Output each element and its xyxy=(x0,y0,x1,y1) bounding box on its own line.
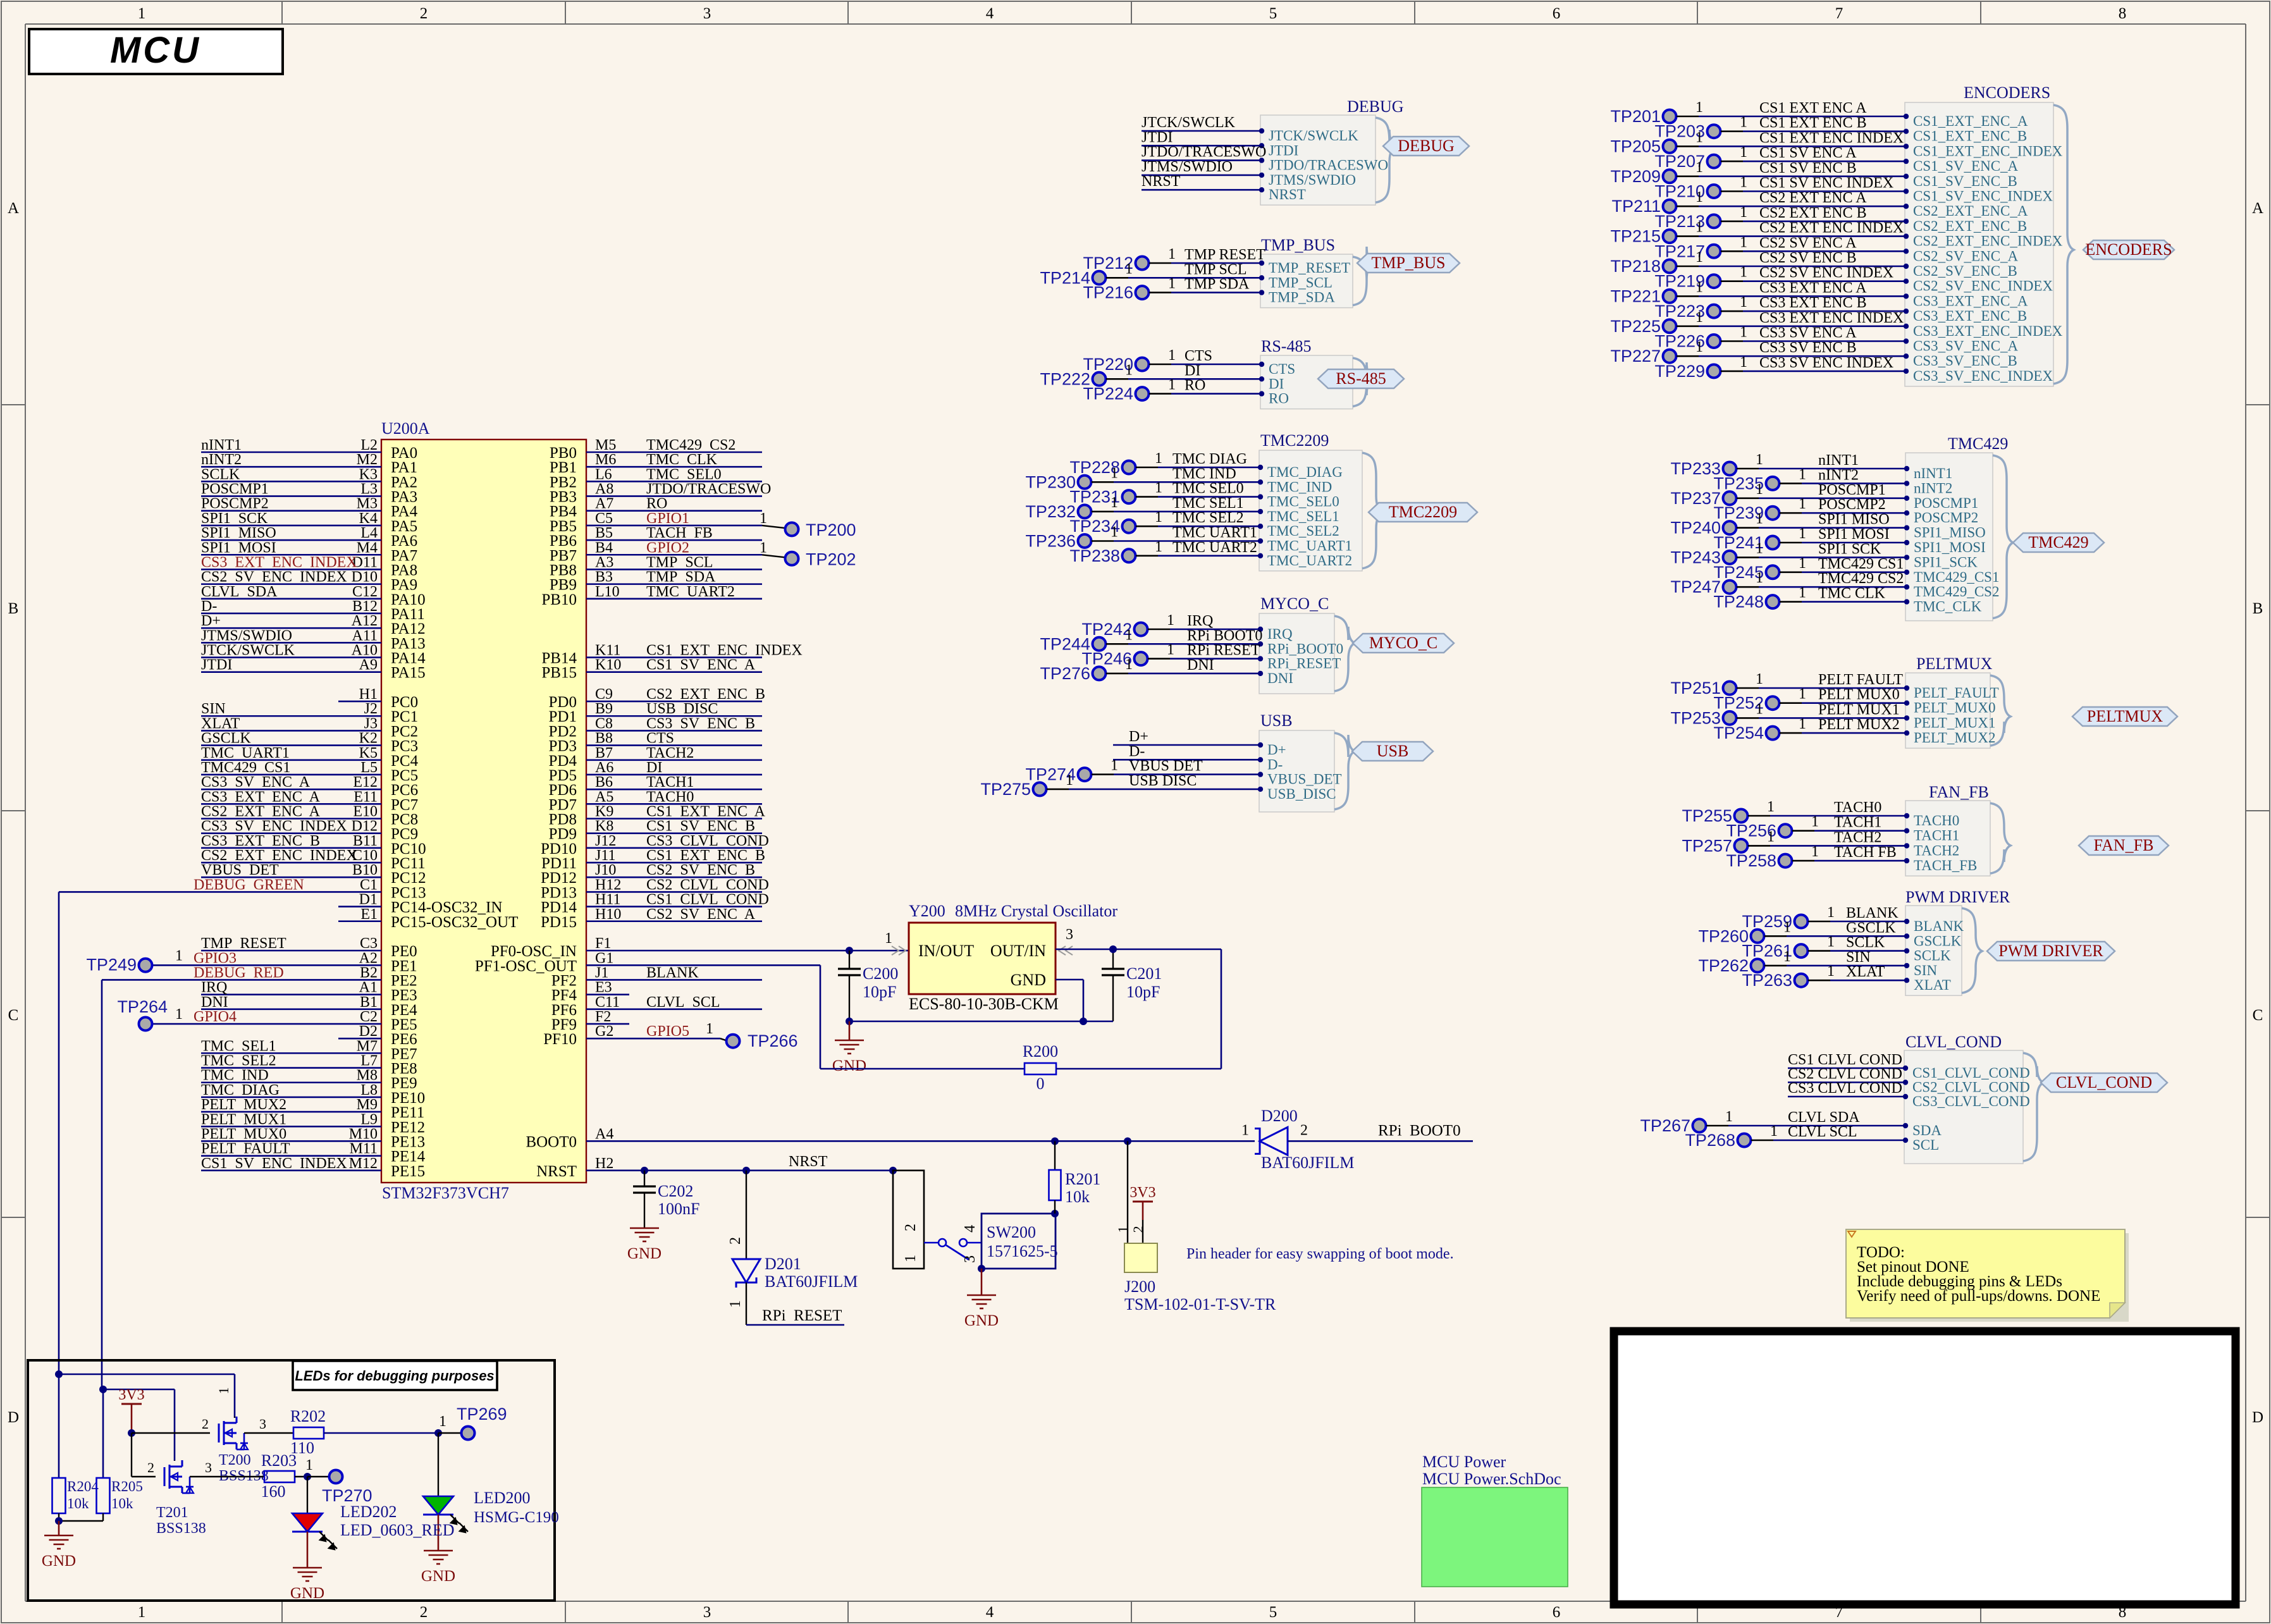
test point TP243 xyxy=(1670,540,1905,567)
svg-text:TMP_BUS: TMP_BUS xyxy=(1371,254,1445,272)
harness title PWM DRIVER xyxy=(1905,888,2010,906)
svg-text:DNI: DNI xyxy=(1267,670,1293,686)
svg-text:TMC_DIAG: TMC_DIAG xyxy=(1267,464,1343,480)
svg-text:1: 1 xyxy=(1125,627,1133,643)
svg-text:OUT/IN: OUT/IN xyxy=(990,942,1046,960)
harness port ENCODERS xyxy=(2083,240,2174,259)
svg-text:D201: D201 xyxy=(765,1255,801,1273)
svg-text:CS2_SV_ENC_B: CS2_SV_ENC_B xyxy=(1913,263,2017,279)
harness entry NRST xyxy=(1259,187,1306,202)
svg-text:1: 1 xyxy=(760,510,767,527)
svg-text:1: 1 xyxy=(1740,234,1747,250)
svg-text:CS2_SV_ENC_INDEX: CS2_SV_ENC_INDEX xyxy=(1913,278,2053,294)
svg-text:LED_0603_RED: LED_0603_RED xyxy=(340,1521,455,1539)
svg-text:GPIO2: GPIO2 xyxy=(646,539,689,556)
svg-text:J10: J10 xyxy=(595,862,616,878)
harness title DEBUG xyxy=(1347,97,1404,116)
svg-text:1: 1 xyxy=(1756,570,1763,586)
MCU pin M3 (PA4) xyxy=(201,496,418,520)
svg-text:1: 1 xyxy=(1111,524,1118,541)
MCU pin D11 (PA8) xyxy=(201,554,417,579)
harness entry PELT_MUX2 xyxy=(1904,730,1996,746)
svg-text:C: C xyxy=(8,1007,19,1024)
svg-text:K5: K5 xyxy=(359,745,378,761)
svg-text:RO: RO xyxy=(1269,391,1289,407)
test point TP230 xyxy=(1025,465,1259,491)
net label PELT MUX2 xyxy=(1818,717,1900,733)
sheet title box MCU xyxy=(29,29,283,74)
MCU pin H11 (PD14) xyxy=(541,892,769,916)
harness entry SDA xyxy=(1903,1123,1942,1138)
test point TP202 xyxy=(760,539,856,569)
svg-text:JTCK/SWCLK: JTCK/SWCLK xyxy=(1142,114,1236,131)
svg-text:PELT_MUX2: PELT_MUX2 xyxy=(1914,730,1996,746)
svg-text:USB: USB xyxy=(1377,742,1409,760)
harness port TMC2209 xyxy=(1369,503,1477,522)
svg-text:1: 1 xyxy=(1167,612,1174,629)
net label RPi RESET xyxy=(1187,643,1260,659)
wire CS3_CLVL_COND xyxy=(1788,1096,1904,1098)
svg-text:SPI1 MOSI: SPI1 MOSI xyxy=(1818,526,1890,543)
wire crystal OUT/IN to C201 and R200 xyxy=(1055,945,1221,1069)
svg-text:LEDs for debugging purposes: LEDs for debugging purposes xyxy=(295,1368,494,1384)
svg-text:1: 1 xyxy=(1696,309,1703,326)
net label SPI1 MOSI xyxy=(1818,526,1890,543)
test point TP269 xyxy=(434,1405,507,1440)
svg-text:nINT1: nINT1 xyxy=(201,437,242,453)
MCU pin A4 (BOOT0) wire xyxy=(526,1126,1255,1150)
svg-text:PB15: PB15 xyxy=(541,665,577,682)
svg-text:M2: M2 xyxy=(357,452,378,468)
svg-text:TMP SDA: TMP SDA xyxy=(646,569,716,586)
MCU pin M12 (PE15) xyxy=(201,1155,425,1180)
harness entry TMP_RESET xyxy=(1259,260,1350,276)
svg-text:1: 1 xyxy=(1740,294,1747,311)
net label TACH FB xyxy=(1834,844,1897,861)
svg-text:D12: D12 xyxy=(352,818,378,835)
harness entry RPi_BOOT0 xyxy=(1258,641,1343,656)
svg-text:PELT FAULT: PELT FAULT xyxy=(201,1141,290,1157)
svg-text:PELT_MUX1: PELT_MUX1 xyxy=(1914,715,1996,730)
svg-text:D+: D+ xyxy=(201,613,221,629)
svg-text:E1: E1 xyxy=(360,906,378,923)
svg-text:TMC429_CS1: TMC429_CS1 xyxy=(1914,569,1999,585)
svg-text:A2: A2 xyxy=(359,950,378,966)
svg-text:BAT60JFILM: BAT60JFILM xyxy=(765,1272,858,1291)
svg-text:1: 1 xyxy=(1125,362,1133,378)
svg-text:M12: M12 xyxy=(349,1155,378,1172)
test point TP242 xyxy=(1081,612,1259,639)
note pin header boot mode xyxy=(1186,1246,1454,1262)
svg-text:CS2 EXT ENC INDEX: CS2 EXT ENC INDEX xyxy=(1759,220,1904,237)
harness entry SPI1_SCK xyxy=(1904,554,1978,570)
svg-text:L5: L5 xyxy=(360,760,378,776)
svg-text:CS2_SV_ENC_A: CS2_SV_ENC_A xyxy=(1913,248,2019,264)
svg-text:TP268: TP268 xyxy=(1685,1131,1735,1150)
net label PELT MUX1 xyxy=(1818,701,1900,718)
harness entry SCLK xyxy=(1904,948,1951,964)
svg-text:TMP RESET: TMP RESET xyxy=(201,935,286,952)
svg-text:TACH0: TACH0 xyxy=(1914,813,1959,828)
svg-text:TMC429_CS2: TMC429_CS2 xyxy=(1914,584,1999,600)
svg-text:CS3 SV ENC B: CS3 SV ENC B xyxy=(1759,340,1857,356)
svg-text:CS2 EXT ENC B: CS2 EXT ENC B xyxy=(646,686,765,703)
harness connector PWM DRIVER xyxy=(1905,906,1962,995)
svg-text:CS1_EXT_ENC_INDEX: CS1_EXT_ENC_INDEX xyxy=(1913,143,2063,159)
harness brace RS-485 xyxy=(1353,358,1373,407)
MCU pin J2 (PC1) xyxy=(201,701,418,725)
harness entry PELT_MUX0 xyxy=(1904,700,1996,716)
svg-text:IRQ: IRQ xyxy=(201,980,227,996)
svg-text:CLVL_COND: CLVL_COND xyxy=(2056,1073,2152,1092)
svg-text:POSCMP1: POSCMP1 xyxy=(1818,482,1886,498)
svg-text:3: 3 xyxy=(703,5,711,22)
MCU pin D12 (PC9) xyxy=(201,818,418,843)
test point TP218 xyxy=(1610,249,1905,276)
svg-text:1: 1 xyxy=(1696,189,1703,206)
svg-text:1: 1 xyxy=(1799,555,1806,572)
test point TP229 xyxy=(1654,354,1905,381)
svg-text:SPI1_MOSI: SPI1_MOSI xyxy=(1914,539,1986,555)
harness entry CS3_SV_ENC_A xyxy=(1904,338,2019,354)
svg-text:L10: L10 xyxy=(595,584,620,600)
MCU pin M6 (PB1) xyxy=(550,452,762,476)
net label USB DISC xyxy=(1129,773,1197,789)
svg-text:B3: B3 xyxy=(595,569,613,586)
MCU U200A STM32F373VCH7 part body xyxy=(381,419,586,1202)
net label IRQ xyxy=(1187,613,1213,629)
harness brace DEBUG xyxy=(1376,118,1396,202)
svg-text:1: 1 xyxy=(1767,799,1775,815)
svg-text:A3: A3 xyxy=(595,554,613,570)
svg-text:DEBUG: DEBUG xyxy=(1347,97,1404,116)
harness entry CS3_SV_ENC_INDEX xyxy=(1904,368,2053,384)
test point TP238 xyxy=(1069,539,1259,565)
test point TP233 xyxy=(1670,452,1905,478)
svg-text:M4: M4 xyxy=(357,539,378,556)
svg-text:C200: C200 xyxy=(863,964,898,983)
MCU pin F1 (PF0-OSC_IN) wire to crystal xyxy=(491,935,909,960)
net label POSCMP2 xyxy=(1818,496,1886,513)
svg-text:TP201: TP201 xyxy=(1610,107,1661,126)
svg-text:K2: K2 xyxy=(359,730,378,747)
svg-text:TP232: TP232 xyxy=(1025,502,1076,521)
harness entry CTS xyxy=(1259,361,1295,377)
svg-text:DEBUG GREEN: DEBUG GREEN xyxy=(194,877,304,893)
svg-text:F1: F1 xyxy=(595,935,611,952)
svg-text:CS3 EXT ENC A: CS3 EXT ENC A xyxy=(201,789,321,805)
svg-text:CS2 EXT ENC A: CS2 EXT ENC A xyxy=(1759,190,1867,206)
harness port RS-485 xyxy=(1318,369,1404,388)
svg-text:TP236: TP236 xyxy=(1025,532,1076,551)
test point TP219 xyxy=(1654,264,1905,291)
test point TP222 xyxy=(1040,362,1260,388)
svg-text:1: 1 xyxy=(1111,465,1118,481)
svg-text:TMC429 CS1: TMC429 CS1 xyxy=(201,760,290,776)
svg-text:B2: B2 xyxy=(360,964,378,981)
harness entry D- xyxy=(1258,756,1283,772)
svg-text:J3: J3 xyxy=(364,715,378,732)
svg-text:CS2 EXT ENC INDEX: CS2 EXT ENC INDEX xyxy=(201,847,357,864)
harness entry CS3_SV_ENC_B xyxy=(1904,353,2017,369)
test point TP257 xyxy=(1682,828,1905,855)
svg-text:SPI1 SCK: SPI1 SCK xyxy=(1818,541,1881,557)
svg-text:GPIO5: GPIO5 xyxy=(646,1023,689,1040)
svg-text:TACH0: TACH0 xyxy=(646,789,694,805)
harness entry JTCK/SWCLK xyxy=(1259,128,1358,144)
net label TMC UART2 xyxy=(1172,539,1257,556)
svg-text:TACH FB: TACH FB xyxy=(646,525,713,541)
svg-text:D: D xyxy=(2252,1409,2263,1426)
net label CS1 CLVL COND xyxy=(1788,1052,1902,1068)
svg-text:1: 1 xyxy=(1740,175,1747,191)
svg-text:PELT MUX1: PELT MUX1 xyxy=(1818,701,1900,718)
svg-text:TP266: TP266 xyxy=(748,1031,798,1050)
svg-text:CS3_SV_ENC_A: CS3_SV_ENC_A xyxy=(1913,338,2019,354)
svg-text:CS3 SV ENC INDEX: CS3 SV ENC INDEX xyxy=(1759,355,1893,371)
svg-text:CS3 SV ENC B: CS3 SV ENC B xyxy=(646,715,755,732)
svg-text:D-: D- xyxy=(1129,743,1145,760)
MCU pin L4 (PA6) xyxy=(201,525,417,550)
harness connector RS-485 xyxy=(1260,355,1353,409)
svg-text:B12: B12 xyxy=(352,598,378,615)
net label RPi BOOT0 xyxy=(1187,627,1262,644)
svg-text:1: 1 xyxy=(1696,159,1703,176)
svg-text:SIN: SIN xyxy=(1846,949,1871,966)
harness brace FAN_FB xyxy=(1990,803,2010,873)
resistor R202 110 xyxy=(290,1407,438,1457)
MCU pin K2 (PC3) xyxy=(201,730,418,755)
svg-text:POSCMP2: POSCMP2 xyxy=(201,496,269,512)
svg-text:PELT MUX2: PELT MUX2 xyxy=(1818,717,1900,733)
svg-text:A11: A11 xyxy=(352,627,378,644)
svg-text:PELT_MUX0: PELT_MUX0 xyxy=(1914,700,1996,716)
svg-text:D2: D2 xyxy=(359,1023,378,1040)
svg-text:1: 1 xyxy=(1725,1109,1733,1125)
svg-text:5: 5 xyxy=(1269,5,1277,22)
svg-text:B10: B10 xyxy=(352,862,378,878)
svg-text:VBUS DET: VBUS DET xyxy=(1129,758,1203,775)
transistor T201 BSS138 xyxy=(132,1433,264,1537)
MCU pin G1 (PF1-OSC_OUT) wire xyxy=(475,950,820,1069)
test point TP213 xyxy=(1654,204,1905,231)
MCU pin J12 (PD10) xyxy=(541,833,769,858)
svg-text:SIN: SIN xyxy=(201,701,226,717)
svg-text:TP248: TP248 xyxy=(1713,593,1764,612)
net label CS3 EXT ENC A xyxy=(1759,280,1867,296)
wire JTDI xyxy=(1142,145,1260,147)
svg-text:A1: A1 xyxy=(359,980,378,996)
MCU pin J11 (PD11) xyxy=(541,847,765,872)
MCU pin M8 (PE9) xyxy=(201,1067,417,1092)
svg-text:1: 1 xyxy=(305,1457,313,1473)
test point TP210 xyxy=(1654,175,1905,201)
svg-text:NRST: NRST xyxy=(1142,173,1181,190)
svg-text:CTS: CTS xyxy=(646,730,674,747)
svg-text:A4: A4 xyxy=(595,1126,613,1142)
svg-text:1: 1 xyxy=(1827,963,1835,980)
harness entry VBUS_DET xyxy=(1258,772,1342,787)
svg-text:2: 2 xyxy=(727,1237,744,1245)
svg-text:C2: C2 xyxy=(360,1009,378,1025)
svg-text:A10: A10 xyxy=(352,643,378,659)
harness connector TMC429 xyxy=(1905,453,1993,621)
svg-text:1: 1 xyxy=(1696,219,1703,236)
svg-text:TP230: TP230 xyxy=(1025,472,1076,491)
svg-text:1: 1 xyxy=(1767,828,1775,845)
svg-text:XLAT: XLAT xyxy=(201,715,240,732)
svg-text:TMC_SEL2: TMC_SEL2 xyxy=(1267,523,1339,539)
harness entry SCL xyxy=(1903,1137,1939,1153)
svg-text:TP267: TP267 xyxy=(1640,1116,1690,1135)
svg-text:GND: GND xyxy=(1011,971,1046,989)
MCU pin J10 (PD12) xyxy=(541,862,762,887)
MCU pin E12 (PC6) xyxy=(201,774,418,799)
svg-text:TACH FB: TACH FB xyxy=(1834,844,1897,861)
svg-text:RO: RO xyxy=(1185,378,1205,394)
svg-text:TP262: TP262 xyxy=(1698,956,1749,975)
svg-text:TACH1: TACH1 xyxy=(646,774,694,790)
svg-text:B: B xyxy=(8,600,19,617)
svg-text:1: 1 xyxy=(1155,450,1162,467)
svg-text:1: 1 xyxy=(1696,339,1703,355)
svg-text:PELT MUX0: PELT MUX0 xyxy=(1818,687,1900,703)
svg-text:C201: C201 xyxy=(1126,964,1162,983)
svg-text:1: 1 xyxy=(138,5,146,22)
svg-text:R203: R203 xyxy=(261,1451,297,1470)
svg-text:Y200: Y200 xyxy=(909,902,945,920)
svg-text:3: 3 xyxy=(205,1460,212,1475)
MCU pin A12 (PA12) xyxy=(201,613,426,637)
test point TP237 xyxy=(1670,481,1905,508)
svg-text:L2: L2 xyxy=(360,437,378,453)
svg-text:B7: B7 xyxy=(595,745,613,761)
harness brace TMP_BUS xyxy=(1353,247,1373,305)
MCU pin M7 (PE7) xyxy=(201,1038,417,1062)
MCU pin M10 (PE13) xyxy=(201,1126,425,1150)
net label TACH2 xyxy=(1834,829,1881,846)
svg-text:1: 1 xyxy=(1756,511,1763,527)
test point TP214 xyxy=(1040,261,1260,287)
harness port PWM DRIVER xyxy=(1987,942,2115,961)
harness title CLVL_COND xyxy=(1905,1033,2002,1051)
svg-text:TP254: TP254 xyxy=(1713,723,1764,742)
svg-text:MCU Power.SchDoc: MCU Power.SchDoc xyxy=(1422,1470,1561,1488)
svg-text:XLAT: XLAT xyxy=(1846,964,1885,980)
svg-text:GND: GND xyxy=(42,1553,76,1570)
svg-text:2: 2 xyxy=(1300,1122,1308,1138)
svg-text:CS2 CLVL COND: CS2 CLVL COND xyxy=(646,877,769,893)
svg-text:1: 1 xyxy=(1740,354,1747,371)
svg-text:VBUS DET: VBUS DET xyxy=(201,862,279,878)
MCU pin K3 (PA2) xyxy=(201,466,417,491)
svg-text:TMC2209: TMC2209 xyxy=(1260,431,1329,450)
MCU pin D10 (PA9) xyxy=(201,569,417,594)
harness entry CS3_EXT_ENC_A xyxy=(1904,293,2028,309)
harness port DEBUG xyxy=(1383,137,1469,156)
wire DEBUG_RED into LED box xyxy=(99,1386,175,1461)
harness entry nINT1 xyxy=(1904,465,1953,481)
svg-text:RS-485: RS-485 xyxy=(1336,369,1386,388)
svg-text:USB: USB xyxy=(1260,711,1293,730)
harness entry TACH2 xyxy=(1904,842,1959,858)
svg-text:JTDO/TRACESWO: JTDO/TRACESWO xyxy=(646,481,771,498)
test point TP217 xyxy=(1654,234,1905,261)
net label CS1 EXT ENC INDEX xyxy=(1759,130,1904,146)
svg-text:1: 1 xyxy=(1799,466,1806,483)
test point TP224 xyxy=(1083,377,1260,403)
svg-text:GND: GND xyxy=(627,1245,662,1262)
MCU pin B8 (PD3) xyxy=(549,730,762,755)
MCU pin B4 (PB7) xyxy=(550,539,762,564)
svg-text:6: 6 xyxy=(1553,1604,1561,1621)
svg-text:TMP SDA: TMP SDA xyxy=(1185,276,1250,293)
svg-text:L6: L6 xyxy=(595,466,612,483)
harness connector CLVL_COND xyxy=(1904,1050,2023,1164)
svg-text:GSCLK: GSCLK xyxy=(1914,933,1962,949)
test point TP215 xyxy=(1610,219,1905,246)
test point TP275 xyxy=(980,772,1259,799)
svg-text:CS2 SV ENC B: CS2 SV ENC B xyxy=(1759,250,1857,266)
harness entry RO xyxy=(1259,391,1289,407)
svg-text:1: 1 xyxy=(760,539,767,556)
svg-text:CS1 SV ENC A: CS1 SV ENC A xyxy=(1759,145,1857,161)
svg-text:TP264: TP264 xyxy=(117,997,168,1016)
pin header J200 TSM-102-01-T-SV-TR xyxy=(1115,1137,1276,1313)
svg-text:CS3 EXT ENC INDEX: CS3 EXT ENC INDEX xyxy=(201,554,357,570)
MCU pin H1 (PC0) xyxy=(338,686,418,711)
svg-text:1: 1 xyxy=(1168,377,1176,393)
harness entry RPi_RESET xyxy=(1258,656,1341,672)
svg-text:TMC_SEL0: TMC_SEL0 xyxy=(1267,494,1339,510)
svg-text:1: 1 xyxy=(138,1604,146,1621)
MCU pin M5 (PB0) xyxy=(550,437,762,462)
MCU pin M11 (PE14) xyxy=(201,1141,426,1166)
harness entry TMC_SEL0 xyxy=(1258,494,1339,510)
svg-text:CTS: CTS xyxy=(1269,361,1295,377)
harness entry POSCMP2 xyxy=(1904,510,1978,526)
resistor R204 10k xyxy=(52,1374,99,1521)
resistor R203 160 xyxy=(261,1451,308,1501)
svg-text:FAN_FB: FAN_FB xyxy=(2094,836,2154,854)
svg-text:ENCODERS: ENCODERS xyxy=(1964,83,2050,102)
MCU pin C12 (PA10) xyxy=(201,584,426,608)
test point TP252 xyxy=(1713,686,1905,713)
svg-text:Pin header for easy swapping o: Pin header for easy swapping of boot mod… xyxy=(1186,1246,1454,1262)
svg-text:SPI1_MISO: SPI1_MISO xyxy=(1914,525,1986,541)
test point TP246 xyxy=(1081,642,1259,668)
net label TACH0 xyxy=(1834,799,1881,816)
MCU pin B11 (PC10) xyxy=(201,833,426,858)
svg-text:D10: D10 xyxy=(352,569,378,586)
svg-text:C5: C5 xyxy=(595,510,613,527)
MCU pin B2 (PE2) xyxy=(102,964,417,989)
harness port MYCO_C xyxy=(1353,634,1454,653)
svg-text:2: 2 xyxy=(420,1604,428,1621)
net label TMC429 CS2 xyxy=(1818,570,1904,587)
svg-text:1: 1 xyxy=(1066,772,1073,789)
svg-text:SCLK: SCLK xyxy=(1914,948,1951,964)
test point TP276 xyxy=(1040,656,1259,683)
svg-text:CS3 CLVL COND: CS3 CLVL COND xyxy=(646,833,769,849)
svg-text:nINT2: nINT2 xyxy=(201,452,242,468)
svg-text:NRST: NRST xyxy=(789,1153,828,1170)
net label CLVL SDA xyxy=(1788,1109,1860,1126)
svg-text:TP257: TP257 xyxy=(1682,836,1732,855)
svg-text:CS1 CLVL COND: CS1 CLVL COND xyxy=(646,892,769,908)
svg-text:1: 1 xyxy=(439,1413,446,1430)
test point TP241 xyxy=(1713,526,1905,552)
